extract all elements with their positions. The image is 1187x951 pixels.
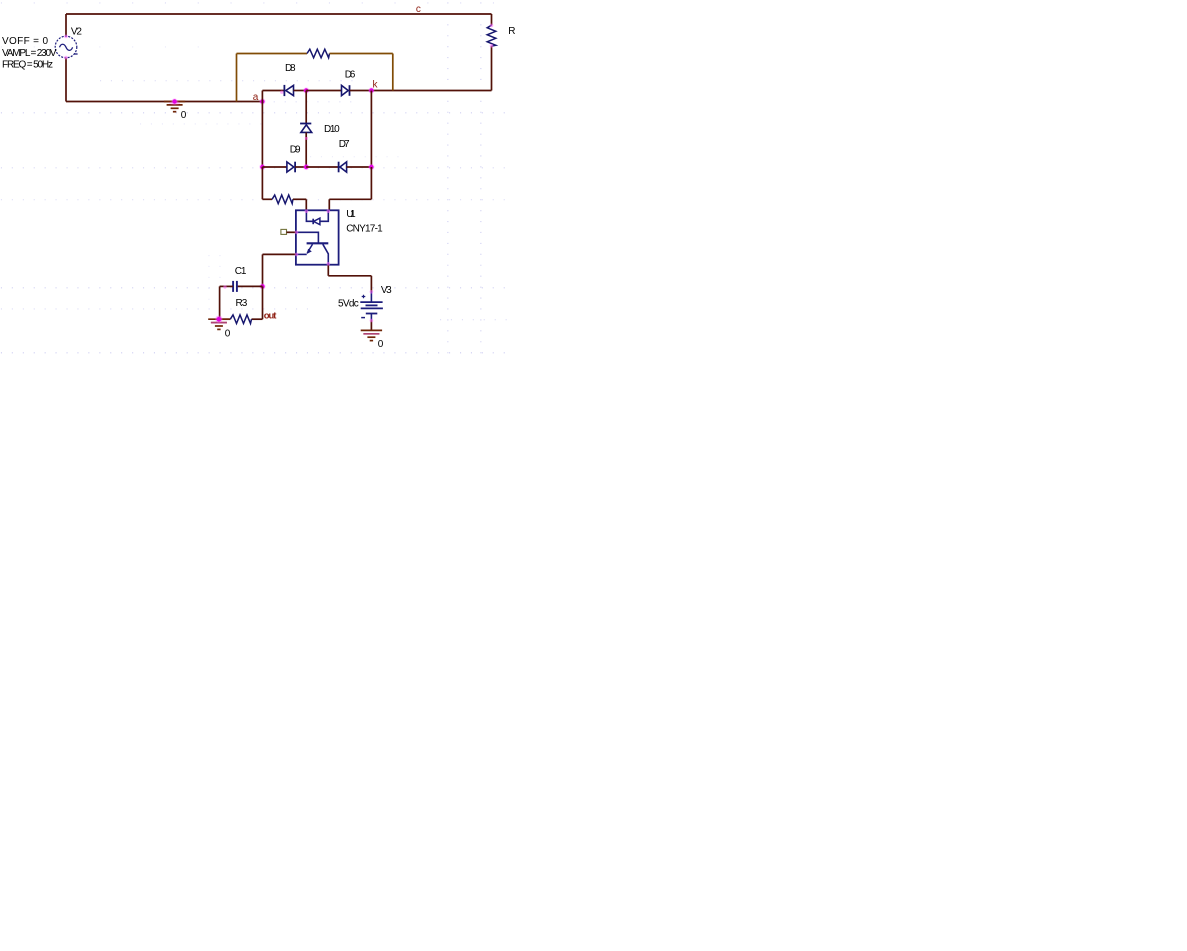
svg-text:D8: D8: [285, 63, 296, 74]
pin marker R bottom: [490, 44, 494, 48]
V2 parameter text VOFF: [2, 36, 48, 47]
U1 label: [346, 209, 356, 220]
wire a up to diode row: [261, 91, 263, 102]
wire a down left bridge side: [261, 102, 263, 168]
wire emitter out left: [263, 253, 296, 255]
source V3 battery: [360, 292, 383, 321]
wire base stub: [287, 231, 296, 233]
wire C1 right lead: [237, 285, 263, 287]
brown loop top left segment: [237, 53, 308, 55]
wire down into U1 pin2: [328, 199, 330, 210]
wire C1 left lead: [220, 285, 233, 287]
wire V2 top lead: [65, 14, 67, 36]
ground 0 label at V2 net: [181, 110, 187, 121]
wire left to D9: [262, 166, 287, 168]
junction at V2 ground: [172, 98, 178, 104]
pin marker U1 emitter: [295, 253, 299, 257]
ground 0 at V2 net: [164, 101, 185, 112]
svg-text:R3: R3: [236, 298, 248, 309]
pin marker V2 top: [64, 35, 68, 39]
wire D7 to bottom right junction: [347, 166, 372, 168]
V2 label: [71, 26, 82, 37]
svg-text:FREQ = 50Hz: FREQ = 50Hz: [2, 60, 53, 71]
node a label: [253, 92, 259, 103]
D10 pin marker: [305, 137, 308, 140]
svg-text:V3: V3: [381, 285, 392, 296]
wire down to V3 plus: [370, 276, 372, 292]
wire emitter column down: [262, 254, 264, 286]
wire center junction to D6: [306, 90, 341, 92]
svg-text:U1: U1: [346, 209, 356, 220]
wire right side down: [370, 167, 372, 199]
svg-text:CNY17-1: CNY17-1: [346, 224, 383, 235]
diode D8: [284, 85, 293, 96]
V3 value 5Vdc: [338, 298, 359, 309]
wire right to U1 pin2 column: [329, 198, 371, 200]
C1 label: [235, 266, 247, 277]
svg-text:D9: D9: [290, 145, 301, 156]
svg-text:R: R: [508, 26, 515, 37]
pin marker V3 top: [370, 290, 374, 294]
ground 0 label at R3: [225, 328, 231, 339]
wire out corner to R3: [252, 318, 263, 320]
wire below R: [491, 46, 493, 90]
svg-text:k: k: [373, 79, 379, 90]
pin marker U1 pin1: [305, 209, 309, 213]
resistor bridge output: [272, 195, 293, 204]
U1 LED: [306, 210, 328, 224]
junction top center: [303, 87, 309, 93]
junction R3 ground: [215, 316, 222, 323]
R3 label: [236, 298, 248, 309]
V3 label: [381, 285, 392, 296]
wire k to right column: [371, 90, 491, 92]
source V2: [55, 36, 77, 58]
wire V3 minus down: [370, 320, 372, 330]
node k junction: [368, 87, 374, 93]
wire a to D8: [262, 90, 284, 92]
wire R3 to ground junction: [219, 318, 230, 320]
pin marker V3 bottom: [370, 319, 374, 323]
wire D9 to bottom center junction: [295, 166, 306, 168]
ground 0 label at V3: [378, 339, 384, 350]
U1 phototransistor: [296, 232, 328, 264]
junction C1 node: [259, 283, 265, 289]
node c label: [416, 4, 421, 15]
D6 label: [345, 69, 356, 80]
wire collector right to V3: [328, 275, 371, 277]
pin marker U1 collector: [327, 262, 331, 266]
diode D9: [287, 162, 295, 173]
node out label: [264, 310, 277, 321]
pin marker D8 left: [280, 91, 283, 94]
junction bottom center: [303, 164, 309, 170]
svg-text:VOFF = 0: VOFF = 0: [2, 36, 48, 47]
V2 parameter text VAMPL: [2, 48, 57, 59]
capacitor C1: [233, 281, 237, 292]
junction bottom right: [368, 164, 374, 170]
D7 label: [339, 139, 350, 150]
resistor R: [487, 25, 496, 46]
pin marker U1 base: [295, 231, 299, 235]
svg-text:V2: V2: [71, 26, 82, 37]
wire left side down to output loop: [261, 167, 263, 199]
svg-text:0: 0: [225, 328, 231, 339]
D9 label: [290, 145, 301, 156]
wire D10 down to bottom row: [305, 132, 307, 167]
diode D6: [342, 85, 350, 96]
pin marker U1 pin2: [327, 209, 331, 213]
wire bottom center to D7: [306, 166, 338, 168]
wire V2 bottom lead: [65, 58, 67, 102]
wire D6 to node k: [350, 90, 372, 92]
wire U1 collector down: [327, 265, 329, 276]
wire down into U1 pin1: [305, 199, 307, 210]
wire C1 left column down: [219, 286, 221, 319]
node a junction: [259, 98, 265, 104]
pin marker C1 left: [223, 285, 226, 288]
wire lead to output resistor: [262, 198, 272, 200]
resistor R label: [508, 26, 515, 37]
svg-text:D10: D10: [324, 124, 340, 135]
brown loop top right segment: [330, 53, 393, 55]
svg-text:c: c: [416, 4, 421, 15]
svg-text:0: 0: [181, 110, 187, 121]
svg-text:D6: D6: [345, 69, 356, 80]
diode D10: [300, 124, 312, 133]
ground 0 at R3: [208, 319, 229, 329]
wire D8 to center junction: [294, 90, 307, 92]
svg-text:D7: D7: [339, 139, 350, 150]
junction bottom left: [259, 164, 265, 170]
U1 base pin square: [281, 229, 287, 234]
svg-text:C1: C1: [235, 266, 247, 277]
svg-text:out: out: [264, 310, 277, 321]
U1 value CNY17-1: [346, 224, 383, 235]
D10 label: [324, 124, 340, 135]
D8 label: [285, 63, 296, 74]
pin marker V2 bottom: [64, 56, 68, 60]
wire center junction down to D10: [305, 91, 307, 124]
wire out column down: [262, 286, 264, 319]
resistor in brown loop: [307, 49, 330, 58]
svg-text:5Vdc: 5Vdc: [338, 298, 359, 309]
brown loop left vertical: [236, 54, 238, 102]
V2 parameter text FREQ: [2, 60, 53, 71]
diode D7: [339, 162, 347, 173]
resistor R3: [230, 315, 251, 324]
pin marker R top: [490, 24, 494, 28]
wire resistor to U1 pin1 column: [293, 198, 306, 200]
wire top horizontal net c: [66, 13, 492, 15]
svg-text:a: a: [253, 92, 259, 103]
wire right drop to R: [491, 14, 493, 25]
wire bottom to node a: [66, 101, 262, 103]
node k label: [373, 79, 379, 90]
svg-text:0: 0: [378, 339, 384, 350]
svg-text:VAMPL = 230V: VAMPL = 230V: [2, 48, 57, 59]
ground 0 at V3: [361, 330, 382, 340]
brown loop right vertical: [392, 54, 394, 91]
optocoupler U1 box: [296, 210, 339, 264]
wire k down right bridge side: [370, 91, 372, 168]
